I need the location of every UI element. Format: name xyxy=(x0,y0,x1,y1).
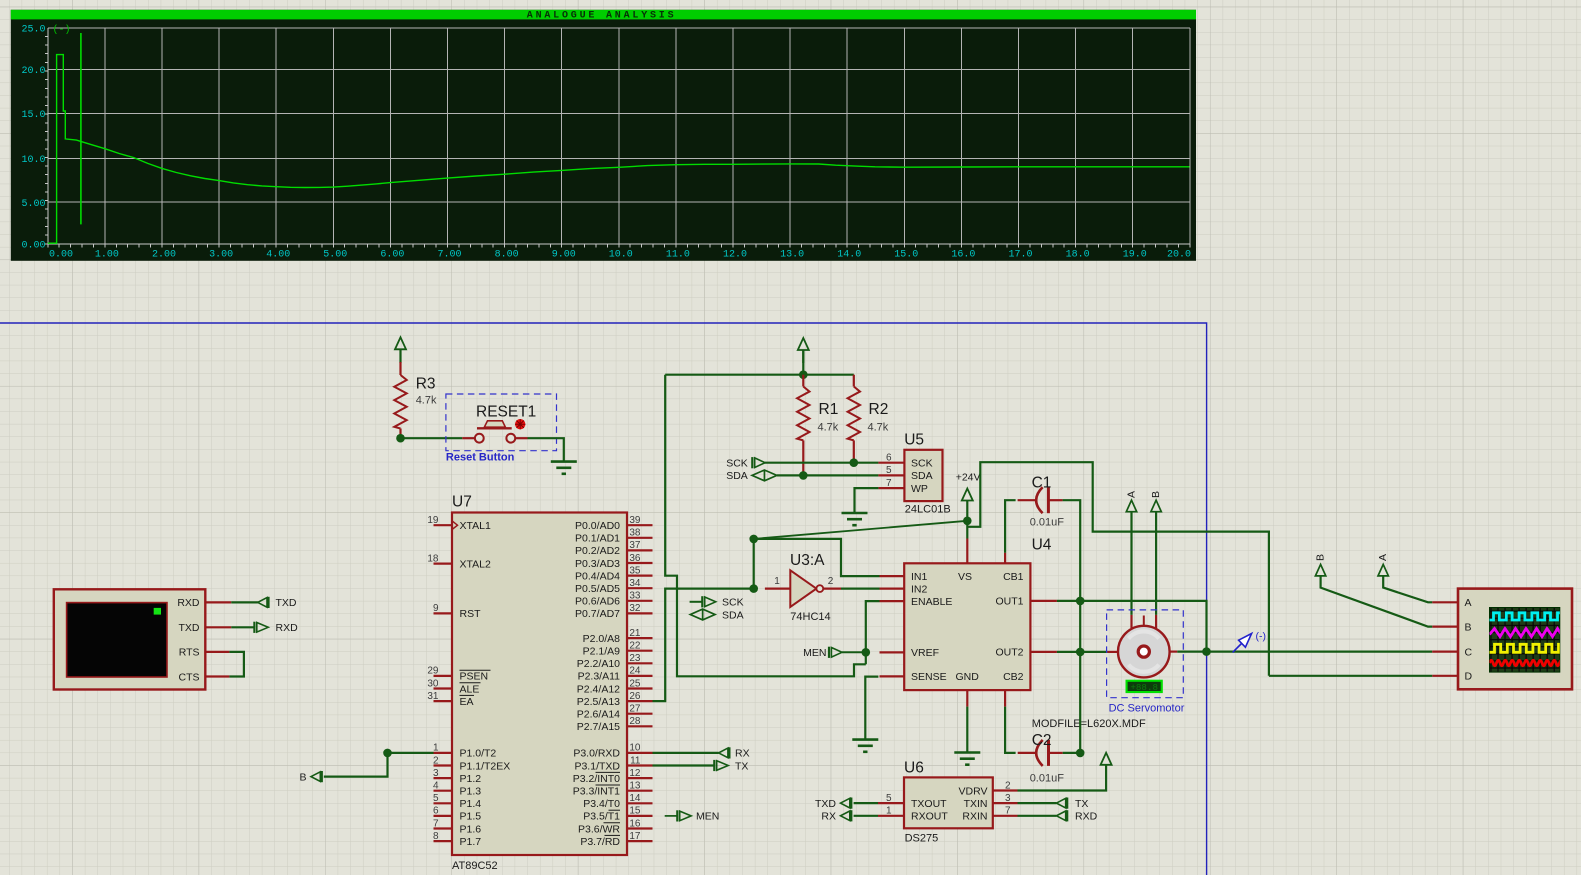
DC servomotor body xyxy=(1118,626,1170,678)
svg-text:A: A xyxy=(1377,554,1389,561)
svg-text:P1.7: P1.7 xyxy=(460,836,482,848)
RX terminal (P3.0) xyxy=(653,752,719,754)
resistor R1 xyxy=(802,375,804,387)
U3 pin2 stub xyxy=(823,587,841,589)
svg-text:17: 17 xyxy=(629,831,641,842)
svg-text:IN1: IN1 xyxy=(911,571,928,583)
svg-text:6: 6 xyxy=(886,453,892,464)
resistor R2 xyxy=(853,375,855,387)
wire scope A to terminal A xyxy=(1383,576,1432,602)
svg-text:8.00: 8.00 xyxy=(495,250,519,261)
svg-text:15.0: 15.0 xyxy=(894,250,918,261)
svg-text:ANALOGUE ANALYSIS: ANALOGUE ANALYSIS xyxy=(527,11,677,22)
TX terminal (U6 right) xyxy=(1018,802,1057,804)
U7 left pins xyxy=(434,524,453,526)
svg-text:4.7k: 4.7k xyxy=(868,422,889,434)
svg-text:TXOUT: TXOUT xyxy=(911,798,947,810)
svg-text:20.0: 20.0 xyxy=(1167,250,1191,261)
push button RESET1 xyxy=(446,394,557,451)
terminal A arrow (motor) xyxy=(1126,500,1136,512)
svg-text:36: 36 xyxy=(629,553,641,564)
svg-text:7: 7 xyxy=(886,478,892,489)
svg-text:U4: U4 xyxy=(1032,537,1052,554)
svg-text:5: 5 xyxy=(886,465,892,476)
svg-text:14.0: 14.0 xyxy=(837,250,861,261)
U5 pins xyxy=(878,462,904,464)
svg-text:25.0: 25.0 xyxy=(21,24,45,35)
svg-text:TXIN: TXIN xyxy=(964,798,988,810)
analogue analysis graph window xyxy=(11,10,1196,261)
svg-text:5.00: 5.00 xyxy=(323,250,347,261)
svg-text:(-): (-) xyxy=(1256,631,1267,643)
resistor R3 xyxy=(399,362,401,375)
svg-text:P3.4/T0: P3.4/T0 xyxy=(583,798,620,810)
vertical wire OUT1/OUT2/C2 xyxy=(1079,601,1081,753)
rs232 driver U6 DS275 body xyxy=(904,777,993,828)
svg-text:CB1: CB1 xyxy=(1003,571,1024,583)
terminal B arrow (scope) xyxy=(1315,564,1325,576)
svg-text:35: 35 xyxy=(629,565,641,576)
svg-text:SDA: SDA xyxy=(911,470,933,482)
node +24V xyxy=(963,517,972,526)
svg-text:7.00: 7.00 xyxy=(437,250,461,261)
svg-text:B: B xyxy=(1465,621,1472,633)
wire +24V node to VS xyxy=(966,521,968,539)
svg-text:24: 24 xyxy=(629,666,641,677)
rail wire to R1/R2 tops xyxy=(665,374,854,376)
svg-text:13: 13 xyxy=(629,781,641,792)
svg-text:TX: TX xyxy=(1075,798,1088,810)
svg-text:P1.3: P1.3 xyxy=(460,786,482,798)
svg-text:P1.1/T2EX: P1.1/T2EX xyxy=(460,760,511,772)
oscilloscope body xyxy=(1458,589,1572,690)
svg-text:2.00: 2.00 xyxy=(152,250,176,261)
svg-text:P3.3/INT1: P3.3/INT1 xyxy=(573,786,620,798)
node rail/R1 xyxy=(799,370,808,379)
svg-text:6: 6 xyxy=(433,806,439,817)
svg-text:P2.5/A13: P2.5/A13 xyxy=(577,696,620,708)
svg-text:P2.1/A9: P2.1/A9 xyxy=(583,646,621,658)
svg-text:39: 39 xyxy=(629,515,641,526)
scope trace D (red sine) xyxy=(1490,660,1567,665)
svg-text:OUT2: OUT2 xyxy=(995,647,1023,659)
svg-text:ENABLE: ENABLE xyxy=(911,596,952,608)
node OUT1 xyxy=(1076,597,1085,606)
motor pins left/right xyxy=(1107,651,1118,653)
svg-text:VS: VS xyxy=(958,571,972,583)
diagonal wire to +24V node xyxy=(754,521,968,539)
svg-text:P0.5/AD5: P0.5/AD5 xyxy=(575,583,620,595)
node U3 input xyxy=(749,584,758,593)
svg-text:13.0: 13.0 xyxy=(780,250,804,261)
svg-text:C2: C2 xyxy=(1032,732,1052,749)
wire P2.5/A13 up to U3 input xyxy=(653,589,754,702)
wire SENSE to ground xyxy=(865,677,878,740)
RX terminal (U6) xyxy=(854,815,878,817)
svg-text:R3: R3 xyxy=(416,376,436,393)
svg-text:RX: RX xyxy=(821,811,836,823)
svg-text:P2.0/A8: P2.0/A8 xyxy=(583,633,621,645)
svg-text:1.00: 1.00 xyxy=(95,250,119,261)
U4 top pins VS CB1 xyxy=(966,539,968,564)
svg-text:P2.6/A14: P2.6/A14 xyxy=(577,709,620,721)
svg-text:9: 9 xyxy=(433,603,439,614)
svg-text:2: 2 xyxy=(433,755,439,766)
svg-text:P1.6: P1.6 xyxy=(460,823,482,835)
wire from node up to diagonal xyxy=(753,539,755,589)
MEN terminal (P3.5) xyxy=(665,815,678,817)
terminal A arrow (scope) xyxy=(1378,564,1388,576)
svg-text:1: 1 xyxy=(774,576,780,587)
node at P1.0 wire xyxy=(383,749,392,758)
svg-text:P1.5: P1.5 xyxy=(460,811,482,823)
svg-text:A: A xyxy=(1126,491,1138,498)
inverter U3:A 74HC14 xyxy=(790,570,816,607)
svg-text:RST: RST xyxy=(460,608,482,620)
wire GND pin to ground xyxy=(966,707,968,753)
wire node to U4 IN1 xyxy=(754,539,880,576)
svg-text:3: 3 xyxy=(1005,793,1011,804)
svg-text:0.01uF: 0.01uF xyxy=(1030,773,1065,785)
svg-text:P0.7/AD7: P0.7/AD7 xyxy=(575,608,620,620)
svg-text:SDA: SDA xyxy=(726,470,748,482)
terminal B arrow (motor) xyxy=(1151,500,1161,512)
svg-text:P2.7/A15: P2.7/A15 xyxy=(577,721,620,733)
svg-text:P3.7/RD: P3.7/RD xyxy=(580,836,620,848)
graph title bar xyxy=(11,10,1196,20)
wire VDRV to power arrow xyxy=(1018,765,1107,790)
motor selection dashed box xyxy=(1107,610,1184,698)
svg-text:XTAL1: XTAL1 xyxy=(460,520,491,532)
motor LCD readout xyxy=(1126,680,1163,693)
svg-text:U3:A: U3:A xyxy=(790,552,825,569)
svg-text:12.0: 12.0 xyxy=(723,250,747,261)
wire button to ground xyxy=(528,438,564,461)
svg-text:8: 8 xyxy=(433,831,439,842)
svg-text:15: 15 xyxy=(629,806,641,817)
svg-text:25: 25 xyxy=(629,678,641,689)
svg-text:0.00: 0.00 xyxy=(21,240,45,251)
svg-text:P3.5/T1: P3.5/T1 xyxy=(583,811,620,823)
graph transient spike xyxy=(80,33,82,224)
svg-text:TX: TX xyxy=(735,760,748,772)
svg-text:P2.2/A10: P2.2/A10 xyxy=(577,658,620,670)
svg-text:WP: WP xyxy=(911,483,928,495)
terminal TXD output wire and arrow xyxy=(231,601,258,603)
wire C1 right down to OUT1 xyxy=(1063,500,1081,601)
MEN terminal (U4) xyxy=(842,651,866,653)
wire R3 to reset button xyxy=(401,437,463,439)
terminal RXD input wire and arrow xyxy=(231,626,254,628)
ground (U4 GND) xyxy=(966,751,968,754)
svg-text:GND: GND xyxy=(956,671,980,683)
svg-text:37: 37 xyxy=(629,540,641,551)
svg-text:15.0: 15.0 xyxy=(21,110,45,121)
svg-text:34: 34 xyxy=(629,578,641,589)
svg-text:3: 3 xyxy=(433,768,439,779)
power +5V symbol above R1 xyxy=(798,338,809,350)
motor terminal A wire xyxy=(1130,512,1132,615)
svg-text:P0.1/AD1: P0.1/AD1 xyxy=(575,533,620,545)
svg-text:PSEN: PSEN xyxy=(460,671,489,683)
svg-text:ALE: ALE xyxy=(460,683,480,695)
svg-text:SENSE: SENSE xyxy=(911,671,947,683)
scope trace A (cyan square) xyxy=(1490,613,1571,620)
svg-text:TXD: TXD xyxy=(276,597,297,609)
ground (U5 WP) xyxy=(853,511,855,514)
virtual terminal body xyxy=(54,589,206,689)
svg-text:7: 7 xyxy=(433,818,439,829)
svg-text:0.01uF: 0.01uF xyxy=(1030,517,1065,529)
motor driver U4 body xyxy=(904,563,1030,690)
svg-text:5.00: 5.00 xyxy=(21,199,45,210)
svg-text:MEN: MEN xyxy=(803,647,826,659)
svg-text:4: 4 xyxy=(433,781,439,792)
oscilloscope screen xyxy=(1490,608,1560,673)
wire OUT1 net xyxy=(1057,601,1207,652)
U6 left pins xyxy=(878,802,904,804)
svg-text:2: 2 xyxy=(828,576,834,587)
svg-text:2: 2 xyxy=(1005,780,1011,791)
svg-text:12: 12 xyxy=(629,768,641,779)
wire C2 right to node xyxy=(1063,752,1081,754)
wire CB1 up to C1 xyxy=(1005,500,1016,553)
svg-text:IN2: IN2 xyxy=(911,583,928,595)
mouse cursor annotation xyxy=(1233,642,1244,653)
svg-text:16.0: 16.0 xyxy=(951,250,975,261)
motor terminal B wire xyxy=(1155,512,1157,615)
svg-text:11: 11 xyxy=(630,755,641,766)
wire SCK to U5 pin6 xyxy=(765,462,879,464)
svg-text:RXOUT: RXOUT xyxy=(911,811,948,823)
red actuate indicator xyxy=(515,419,525,429)
wire scope B to terminal B xyxy=(1321,576,1433,627)
svg-text:38: 38 xyxy=(629,528,641,539)
svg-text:P3.0/RXD: P3.0/RXD xyxy=(573,748,620,760)
wire WP to ground xyxy=(855,488,879,513)
capacitor C1 xyxy=(1036,487,1043,513)
wire B to U7 P1.0/T2 xyxy=(324,753,434,777)
svg-text:+88.8: +88.8 xyxy=(1130,682,1158,693)
svg-text:19: 19 xyxy=(427,515,439,526)
wire rail down left (to ENABLE net) xyxy=(665,375,866,677)
svg-text:21: 21 xyxy=(629,628,641,639)
capacitor C2 xyxy=(1036,740,1043,766)
svg-text:74HC14: 74HC14 xyxy=(790,611,830,623)
terminal B arrow xyxy=(311,772,320,782)
svg-text:B: B xyxy=(299,771,306,783)
svg-text:MODFILE=L620X.MDF: MODFILE=L620X.MDF xyxy=(1032,718,1146,730)
svg-text:U5: U5 xyxy=(904,431,924,448)
svg-text:AT89C52: AT89C52 xyxy=(452,860,498,872)
svg-text:C: C xyxy=(1465,646,1473,658)
svg-text:P2.4/A12: P2.4/A12 xyxy=(577,683,620,695)
svg-text:U6: U6 xyxy=(904,759,924,776)
RXD terminal (U6 right) xyxy=(1018,815,1057,817)
svg-text:27: 27 xyxy=(629,704,641,715)
svg-text:OUT1: OUT1 xyxy=(995,596,1023,608)
svg-text:MEN: MEN xyxy=(696,811,719,823)
svg-text:DS275: DS275 xyxy=(905,833,939,845)
svg-text:20.0: 20.0 xyxy=(21,66,45,77)
svg-text:7: 7 xyxy=(1005,806,1011,817)
svg-text:3.00: 3.00 xyxy=(209,250,233,261)
node diag/IN1 xyxy=(749,535,758,544)
svg-text:R2: R2 xyxy=(869,401,889,418)
svg-text:26: 26 xyxy=(629,691,641,702)
svg-text:17.0: 17.0 xyxy=(1008,250,1032,261)
svg-text:P0.3/AD3: P0.3/AD3 xyxy=(575,558,620,570)
svg-text:RXD: RXD xyxy=(1075,811,1098,823)
node motor right xyxy=(1202,647,1211,656)
TX terminal (P3.1) xyxy=(653,764,715,766)
schematic sheet border (blue) xyxy=(0,323,1207,875)
svg-text:1: 1 xyxy=(886,806,892,817)
node: R3 bottom junction xyxy=(396,434,405,443)
svg-text:14: 14 xyxy=(629,793,641,804)
SCK terminal (by P0.6) xyxy=(690,601,703,603)
microcontroller U7 AT89C52 body xyxy=(452,513,627,856)
svg-text:P1.2: P1.2 xyxy=(460,773,482,785)
svg-text:28: 28 xyxy=(629,716,641,727)
svg-text:TXD: TXD xyxy=(179,622,200,634)
wire U3 out to U4 IN2 xyxy=(841,587,880,589)
svg-text:C1: C1 xyxy=(1032,475,1052,492)
U4 bottom pins GND CB2 xyxy=(966,690,968,707)
svg-text:P0.0/AD0: P0.0/AD0 xyxy=(575,520,620,532)
wire motor to oscilloscope C xyxy=(1207,650,1433,652)
svg-text:U7: U7 xyxy=(452,494,472,511)
svg-text:P3.2/INT0: P3.2/INT0 xyxy=(573,773,620,785)
svg-text:30: 30 xyxy=(427,678,439,689)
power +5V symbol above R3 xyxy=(395,337,406,349)
svg-text:4.7k: 4.7k xyxy=(818,422,839,434)
node R2/SCK xyxy=(850,458,859,467)
node OUT2 xyxy=(1076,648,1085,657)
svg-text:32: 32 xyxy=(629,603,641,614)
svg-text:29: 29 xyxy=(427,666,439,677)
svg-text:A: A xyxy=(1465,597,1472,609)
svg-text:TXD: TXD xyxy=(815,798,836,810)
svg-text:RX: RX xyxy=(735,748,750,760)
svg-text:(-): (-) xyxy=(53,24,71,36)
node MEN/ENABLE xyxy=(862,648,871,657)
wire RTS-CTS loopback xyxy=(229,652,244,677)
svg-text:19.0: 19.0 xyxy=(1123,250,1147,261)
svg-text:SDA: SDA xyxy=(722,609,744,621)
svg-text:22: 22 xyxy=(629,641,641,652)
ground (reset) xyxy=(563,460,565,463)
svg-text:P3.1/TXD: P3.1/TXD xyxy=(574,760,620,772)
svg-text:R1: R1 xyxy=(819,401,839,418)
scope trace C (yellow square) xyxy=(1490,644,1572,652)
svg-text:CTS: CTS xyxy=(179,671,200,683)
ground (sense net) xyxy=(864,738,866,741)
top rail +24V wires xyxy=(967,462,1269,676)
svg-text:P0.4/AD4: P0.4/AD4 xyxy=(575,570,620,582)
svg-text:RXD: RXD xyxy=(177,597,200,609)
svg-text:EA: EA xyxy=(460,696,474,708)
svg-text:0.00: 0.00 xyxy=(49,250,73,261)
svg-text:4.7k: 4.7k xyxy=(416,395,437,407)
svg-text:P0.2/AD2: P0.2/AD2 xyxy=(575,545,620,557)
svg-text:SCK: SCK xyxy=(911,458,933,470)
svg-text:5: 5 xyxy=(886,793,892,804)
wire SDA to U5 pin5 xyxy=(777,474,879,476)
svg-text:5: 5 xyxy=(433,793,439,804)
graph trace xyxy=(48,55,1190,244)
wire rail to scope D xyxy=(1269,675,1432,677)
svg-text:31: 31 xyxy=(427,691,439,702)
svg-text:16: 16 xyxy=(629,818,641,829)
svg-text:24LC01B: 24LC01B xyxy=(905,503,951,515)
U6 right pins xyxy=(993,789,1018,791)
U4 right pins OUT1/OUT2 xyxy=(1030,600,1057,602)
svg-text:P1.0/T2: P1.0/T2 xyxy=(460,748,497,760)
svg-text:6.00: 6.00 xyxy=(380,250,404,261)
U7 right pins xyxy=(627,524,653,526)
U4 left pins xyxy=(880,575,905,577)
svg-text:RXIN: RXIN xyxy=(962,811,987,823)
svg-text:DC Servomotor: DC Servomotor xyxy=(1109,703,1185,715)
svg-text:P1.4: P1.4 xyxy=(460,798,482,810)
svg-text:23: 23 xyxy=(629,653,641,664)
wire OUT2 to motor xyxy=(1057,651,1108,653)
graph axes xyxy=(45,28,1190,248)
svg-text:18.0: 18.0 xyxy=(1066,250,1090,261)
node C2 xyxy=(1076,749,1085,758)
svg-text:RXD: RXD xyxy=(276,622,299,634)
svg-text:XTAL2: XTAL2 xyxy=(460,558,491,570)
SDA terminal (by P0.7) xyxy=(690,609,715,620)
svg-text:B: B xyxy=(1150,491,1162,498)
svg-text:P2.3/A11: P2.3/A11 xyxy=(578,671,621,683)
svg-text:D: D xyxy=(1465,671,1473,683)
svg-text:33: 33 xyxy=(629,591,641,602)
terminal cursor xyxy=(154,608,161,615)
svg-text:B: B xyxy=(1315,554,1327,561)
graph gridlines xyxy=(48,28,1190,244)
wire CB2 down to C2 xyxy=(1005,707,1016,753)
scope trace B (magenta triangle) xyxy=(1490,629,1564,637)
svg-text:9.00: 9.00 xyxy=(552,250,576,261)
svg-text:VREF: VREF xyxy=(911,647,939,659)
svg-text:+24V: +24V xyxy=(956,472,981,484)
svg-text:10: 10 xyxy=(629,743,641,754)
svg-text:10.0: 10.0 xyxy=(609,250,633,261)
svg-text:SCK: SCK xyxy=(726,458,748,470)
TXD terminal (U6) xyxy=(854,802,878,804)
terminal screen xyxy=(67,603,167,677)
svg-text:RTS: RTS xyxy=(179,647,200,659)
svg-text:P3.6/WR: P3.6/WR xyxy=(578,823,620,835)
svg-text:CB2: CB2 xyxy=(1003,671,1024,683)
svg-text:10.0: 10.0 xyxy=(21,155,45,166)
svg-text:P0.6/AD6: P0.6/AD6 xyxy=(575,596,620,608)
svg-text:SCK: SCK xyxy=(722,597,744,609)
svg-text:18: 18 xyxy=(427,553,439,564)
node R1/SDA xyxy=(799,471,808,480)
svg-text:Reset Button: Reset Button xyxy=(446,451,515,463)
svg-text:1: 1 xyxy=(433,743,439,754)
power symbol (VDRV) xyxy=(1101,753,1112,765)
svg-text:VDRV: VDRV xyxy=(959,785,988,797)
motor top pin stubs xyxy=(1130,615,1132,628)
eeprom U5 24LC01B body xyxy=(904,450,942,501)
svg-text:4.00: 4.00 xyxy=(266,250,290,261)
oscilloscope pins xyxy=(1432,601,1458,603)
svg-text:RESET1: RESET1 xyxy=(476,404,536,421)
